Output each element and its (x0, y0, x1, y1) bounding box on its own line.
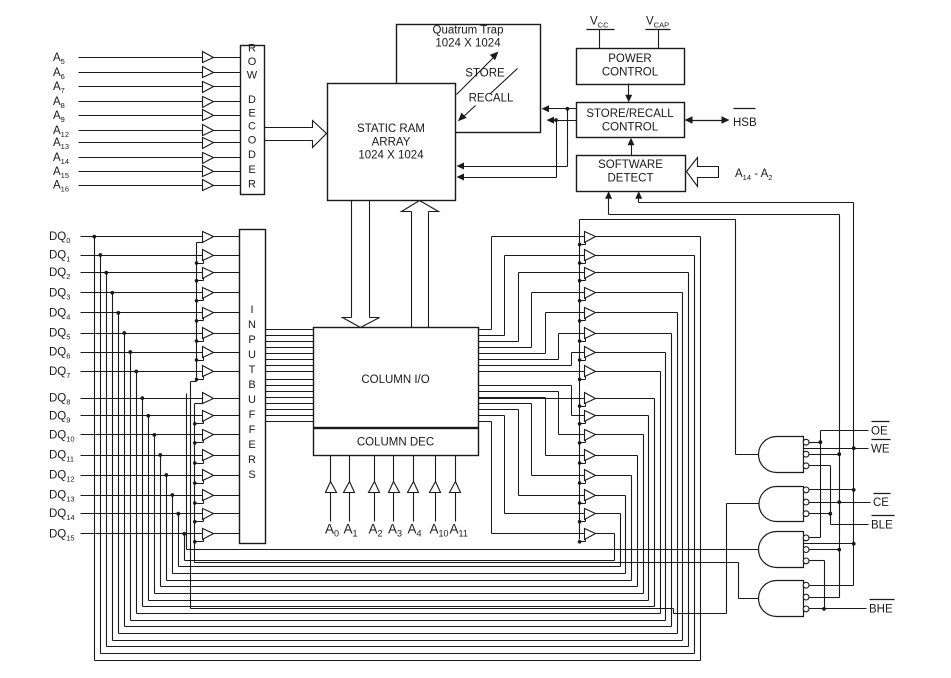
svg-text:D: D (248, 94, 256, 106)
svg-text:STORE/RECALL: STORE/RECALL (586, 108, 674, 120)
svg-text:ARRAY: ARRAY (372, 137, 411, 149)
svg-text:F: F (249, 409, 256, 421)
svg-text:T: T (249, 364, 256, 376)
svg-text:DETECT: DETECT (608, 173, 654, 185)
svg-text:I: I (250, 304, 253, 316)
svg-text:CONTROL: CONTROL (602, 67, 659, 79)
svg-text:R: R (248, 454, 256, 466)
svg-text:CONTROL: CONTROL (602, 122, 659, 134)
svg-text:O: O (248, 56, 257, 68)
svg-text:Quatrum Trap: Quatrum Trap (433, 25, 504, 37)
svg-text:BLE: BLE (871, 520, 893, 532)
svg-text:COLUMN DEC: COLUMN DEC (357, 437, 434, 449)
svg-text:E: E (248, 164, 255, 176)
svg-text:E: E (248, 108, 255, 120)
svg-text:1024 X 1024: 1024 X 1024 (358, 150, 424, 162)
svg-text:STORE: STORE (465, 68, 505, 80)
svg-text:R: R (248, 43, 256, 55)
svg-text:STATIC RAM: STATIC RAM (357, 123, 425, 135)
svg-text:SOFTWARE: SOFTWARE (598, 159, 663, 171)
svg-text:BHE: BHE (869, 604, 893, 616)
svg-text:U: U (248, 394, 256, 406)
svg-text:D: D (248, 149, 256, 161)
svg-text:B: B (248, 379, 255, 391)
svg-text:RECALL: RECALL (469, 93, 514, 105)
svg-text:1024 X 1024: 1024 X 1024 (435, 38, 501, 50)
svg-text:OE: OE (871, 426, 888, 438)
svg-text:S: S (248, 469, 255, 481)
svg-text:HSB: HSB (733, 117, 757, 129)
svg-text:COLUMN I/O: COLUMN I/O (361, 374, 429, 386)
svg-text:N: N (248, 319, 256, 331)
svg-text:C: C (248, 121, 256, 133)
svg-text:F: F (249, 424, 256, 436)
svg-text:O: O (248, 135, 257, 147)
svg-text:W: W (247, 70, 258, 82)
svg-text:U: U (248, 349, 256, 361)
svg-text:A14 - A2: A14 - A2 (735, 168, 772, 182)
svg-text:E: E (248, 439, 255, 451)
svg-text:POWER: POWER (608, 53, 651, 65)
svg-text:WE: WE (871, 444, 890, 456)
svg-text:CE: CE (873, 497, 889, 509)
svg-text:P: P (248, 334, 255, 346)
svg-text:R: R (248, 179, 256, 191)
